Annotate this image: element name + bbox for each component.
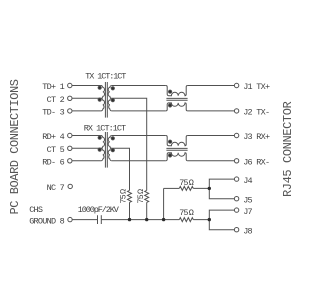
svg-text:J2 TX-: J2 TX- — [243, 108, 270, 118]
junction dot rail/R3 riser — [162, 218, 165, 221]
wire T2 secondary CT to resistor R2 — [112, 148, 130, 190]
svg-text:1000pF/2KV: 1000pF/2KV — [78, 205, 120, 215]
wire choke L2 to J6 — [188, 160, 235, 162]
transformer T2 core — [104, 132, 106, 168]
wire T1 secondary bottom to choke L1 — [112, 110, 166, 112]
choke L1 phase dots — [169, 90, 172, 93]
pin J8 — [234, 228, 238, 232]
pin J5 — [234, 197, 238, 201]
choke L2 core — [166, 147, 187, 149]
wire R3 to J4/J5 junction — [193, 187, 209, 189]
ground rail — [130, 219, 180, 221]
transformer T2 RX secondary winding — [108, 136, 112, 161]
wire R1 to rail — [146, 202, 148, 219]
pin 6 RD- — [68, 159, 72, 163]
svg-text:J1 TX+: J1 TX+ — [243, 82, 270, 92]
pin 8 CHS GROUND — [68, 217, 72, 221]
svg-text:TX 1CT:1CT: TX 1CT:1CT — [85, 72, 126, 82]
svg-text:J6 RX-: J6 RX- — [243, 158, 270, 168]
svg-text:RJ45 CONNECTOR: RJ45 CONNECTOR — [281, 101, 295, 197]
svg-text:J7: J7 — [243, 207, 252, 217]
wire T2 secondary bottom to choke L2 — [112, 160, 166, 162]
svg-text:75Ω: 75Ω — [179, 208, 194, 218]
svg-text:NC 7: NC 7 — [47, 183, 65, 193]
T2 phase dots — [98, 136, 101, 139]
choke L1 bottom winding — [166, 103, 188, 111]
junction dot J7/J8 — [208, 218, 211, 221]
svg-text:J4: J4 — [243, 176, 252, 186]
pin J6 — [234, 159, 238, 163]
wire pin3 to T1 primary bottom — [72, 110, 101, 112]
svg-text:RD+ 4: RD+ 4 — [42, 132, 65, 142]
choke L1 top winding — [166, 86, 188, 96]
J4/J5 branch — [209, 179, 234, 199]
pin J3 — [234, 133, 238, 137]
svg-text:J8: J8 — [243, 226, 252, 236]
wire choke L1 to J2 — [188, 110, 235, 112]
T1 phase dots — [98, 86, 101, 89]
resistor R2 75 ohm vertical (RX CT) — [128, 190, 132, 202]
svg-text:TD+ 1: TD+ 1 — [42, 82, 65, 92]
resistor R4 75 ohm in rail — [179, 218, 193, 222]
svg-text:RX 1CT:1CT: RX 1CT:1CT — [84, 124, 126, 134]
svg-text:75Ω: 75Ω — [179, 178, 194, 188]
wire choke L1 to J1 — [188, 85, 235, 87]
choke L2 bottom winding — [166, 153, 188, 161]
junction dot rail/R1 — [145, 218, 148, 221]
capacitor C1 1000pF/2KV plates — [97, 215, 99, 224]
wire pin6 to T2 primary bottom — [72, 160, 101, 162]
svg-text:TD- 3: TD- 3 — [42, 108, 65, 118]
junction dot J4/J5 — [208, 187, 211, 190]
pin J1 — [234, 83, 238, 87]
pin J4 — [234, 177, 238, 181]
transformer T2 RX primary winding — [101, 136, 105, 161]
transformer T1 core — [104, 82, 106, 118]
svg-text:PC BOARD CONNECTIONS: PC BOARD CONNECTIONS — [8, 79, 22, 214]
pin J7 — [234, 208, 238, 212]
svg-text:J3 RX+: J3 RX+ — [243, 132, 270, 142]
wire T2 secondary top to choke L2 — [112, 135, 166, 137]
wire pin8 to capacitor C1 — [72, 219, 97, 221]
svg-text:75Ω: 75Ω — [118, 189, 128, 204]
wire T1 secondary CT to resistor R1 — [112, 98, 147, 190]
pin 4 RD+ — [68, 133, 72, 137]
choke L2 phase dots — [169, 140, 172, 143]
pin 5 CT — [68, 146, 72, 150]
pin 3 TD- — [68, 109, 72, 113]
J7/J8 branch — [209, 210, 234, 230]
wire riser to R3 — [164, 187, 180, 189]
wire T1 secondary top to choke L1 — [112, 85, 166, 87]
wire R2 to rail — [129, 202, 131, 219]
svg-text:CHS: CHS — [29, 205, 43, 215]
wire pin2 to T1 primary CT — [72, 97, 101, 99]
wire C1 to ground rail — [101, 219, 129, 221]
svg-text:CT 2: CT 2 — [47, 95, 65, 105]
pin 2 CT — [68, 96, 72, 100]
wire choke L2 to J3 — [188, 135, 235, 137]
svg-text:RD- 6: RD- 6 — [42, 158, 65, 168]
wire rail to R3 riser — [163, 188, 165, 219]
svg-text:J5: J5 — [243, 195, 252, 205]
resistor R3 75 ohm horizontal (J4/J5) — [179, 186, 193, 190]
svg-text:GROUND 8: GROUND 8 — [29, 216, 65, 226]
pin 7 NC — [68, 184, 72, 188]
resistor R1 75 ohm vertical (TX CT) — [145, 190, 149, 202]
choke L1 core — [166, 97, 187, 99]
svg-text:75Ω: 75Ω — [136, 189, 146, 204]
wire R4 to J7/J8 junction — [193, 219, 209, 221]
choke L2 top winding — [166, 136, 188, 146]
wire pin5 to T2 primary CT — [72, 147, 101, 149]
wire pin4 to T2 primary top — [72, 135, 101, 137]
transformer T1 TX secondary winding — [108, 86, 112, 111]
pin J2 — [234, 109, 238, 113]
transformer T1 TX primary winding — [101, 86, 105, 111]
svg-text:CT 5: CT 5 — [47, 145, 65, 155]
pin 1 TD+ — [68, 83, 72, 87]
junction dot rail/R2 — [128, 218, 131, 221]
wire pin1 to T1 primary top — [72, 85, 101, 87]
